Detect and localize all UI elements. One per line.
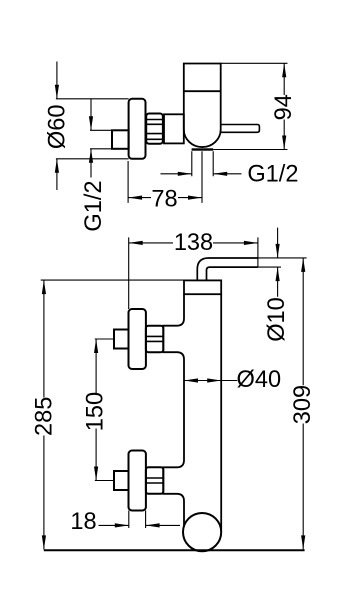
svg-text:Ø40: Ø40 (236, 367, 281, 393)
svg-text:285: 285 (32, 397, 58, 436)
svg-text:94: 94 (271, 94, 297, 120)
svg-text:18: 18 (70, 509, 96, 535)
svg-text:G1/2: G1/2 (81, 180, 107, 231)
svg-text:G1/2: G1/2 (247, 162, 298, 188)
svg-text:Ø10: Ø10 (264, 297, 290, 342)
svg-text:309: 309 (290, 385, 316, 424)
svg-text:Ø60: Ø60 (45, 104, 71, 149)
svg-text:78: 78 (151, 187, 177, 213)
svg-text:138: 138 (174, 230, 213, 256)
svg-text:150: 150 (83, 392, 109, 431)
